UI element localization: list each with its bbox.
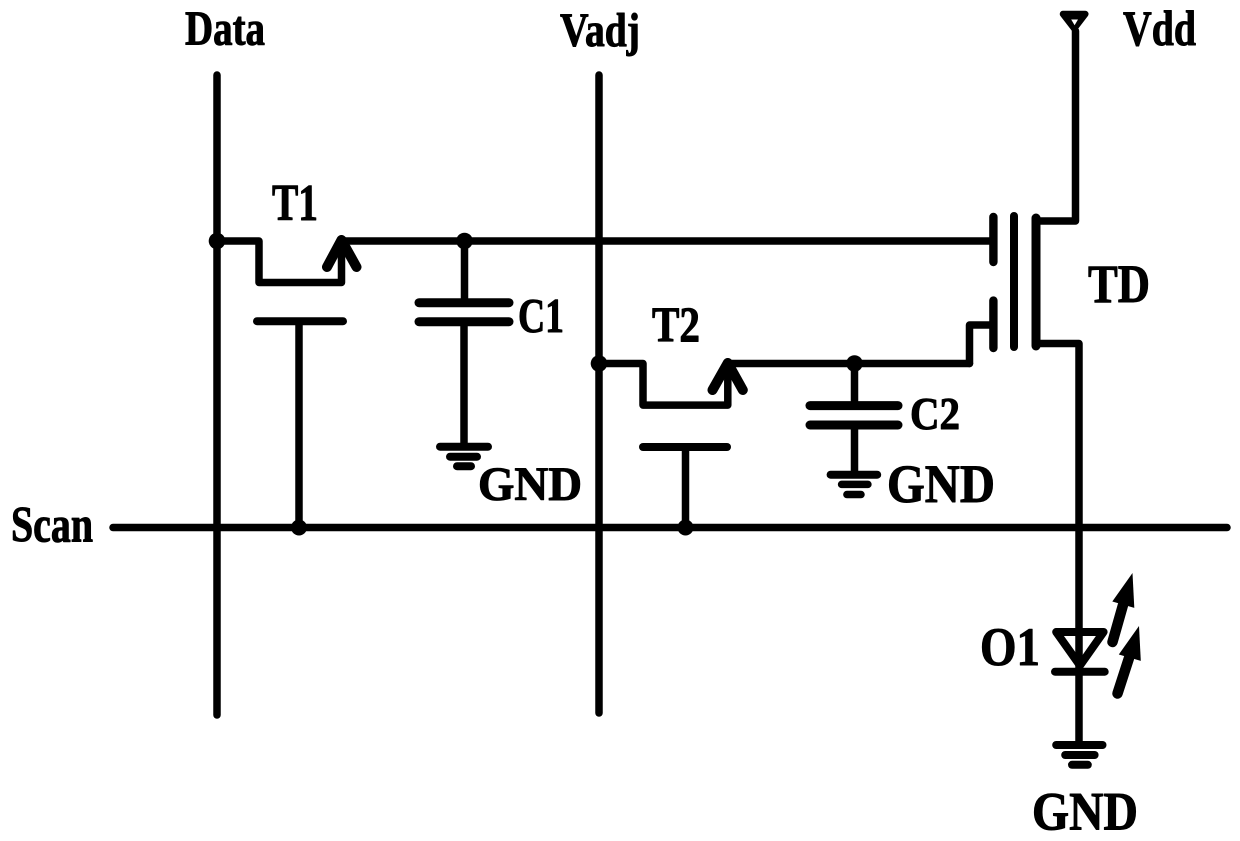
node C2 top junction [846,355,863,372]
label T1 [272,175,318,232]
label TD [1088,253,1150,314]
svg-text:C2: C2 [910,389,960,439]
svg-text:O1: O1 [980,616,1040,677]
svg-text:T2: T2 [652,296,700,352]
node Data junction [209,233,226,250]
capacitor C1 top lead [461,241,469,298]
wire node A: Data to T1 source [217,241,342,283]
wire step up to TD bottom gate [970,325,991,364]
ground symbol below C1 [440,443,488,451]
light emission arrow 2 [1118,658,1130,694]
capacitor C2 top plate [810,401,898,410]
transistor T1 gate bar [257,317,343,325]
diode O1 cathode bar [1055,668,1105,676]
svg-text:Scan: Scan [11,498,93,554]
transistor T2 gate bar [643,443,727,451]
svg-text:TD: TD [1088,253,1150,314]
label GND (C2 ground) [887,454,995,514]
label T2 [652,296,700,352]
node T1 gate-Scan junction [291,520,307,536]
capacitor C2 bottom lead [851,429,859,471]
svg-text:C1: C1 [518,290,564,343]
label C2 [910,389,960,439]
transistor TD gate line [1010,216,1018,347]
net Vadj vertical line [595,75,603,713]
transistor T1 arrow [327,240,357,267]
transistor TD bottom gate bar [989,301,997,348]
label C1 [518,290,564,343]
wire node B: Vadj to T2 source [599,364,728,406]
svg-text:GND: GND [887,454,995,514]
power Vdd terminal triangle [1063,14,1085,29]
node T2 gate-Scan junction [678,520,694,536]
net Data vertical line [213,75,221,715]
node C1 top junction [456,233,473,250]
svg-text:Vdd: Vdd [1123,0,1196,56]
wire T2 drain to step [728,360,970,368]
wire T1 gate to Scan [295,321,303,527]
transistor T2 arrow [713,363,743,390]
capacitor C1 bottom lead [460,326,468,443]
transistor TD top gate bar [989,217,997,262]
label Vadj [560,4,640,57]
capacitor C1 bottom plate [419,317,509,326]
svg-text:T1: T1 [272,175,318,232]
node Vadj-T2 junction [591,355,608,372]
label O1 [980,616,1040,677]
wire T2 gate to Scan [682,447,690,528]
wire T1 drain to TD top gate [342,237,991,245]
net Scan horizontal line [113,524,1227,532]
svg-text:Data: Data [185,3,265,56]
light emission arrow 1 [1113,605,1124,642]
capacitor C2 top lead [851,364,859,402]
ground symbol below O1 [1056,741,1102,749]
label Data [185,3,265,56]
label Vdd [1123,0,1196,56]
label Scan [11,498,93,554]
diode O1 (OLED) triangle [1056,632,1103,666]
wire O1 cathode to ground [1075,672,1083,741]
transistor TD channel bar [1032,218,1041,346]
capacitor C2 bottom plate [810,421,898,430]
svg-text:GND: GND [1032,781,1138,841]
ground symbol below C2 [831,471,878,479]
capacitor C1 top plate [419,298,509,307]
label GND (O1 ground) [1032,781,1138,841]
label GND (C1 ground) [478,459,582,511]
wire TD source stub down [1036,344,1079,672]
wire TD drain stub to Vdd [1036,31,1076,221]
svg-text:GND: GND [478,459,582,511]
svg-text:Vadj: Vadj [560,4,640,57]
